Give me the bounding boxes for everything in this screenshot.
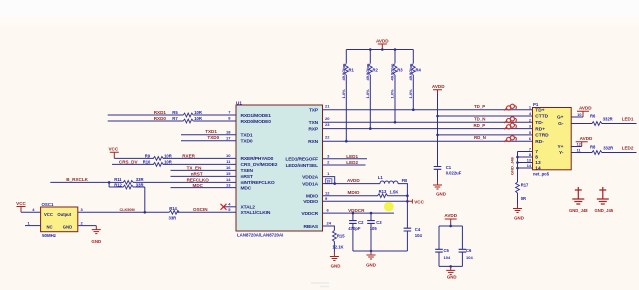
net B_RXCLK wire xyxy=(50,181,109,183)
net TD_N wire TXN to P1 xyxy=(323,121,533,123)
node junction MDIO pull-up xyxy=(406,194,409,197)
svg-text:TXD0: TXD0 xyxy=(241,139,253,145)
svg-text:R12: R12 xyxy=(114,182,122,187)
svg-text:GND: GND xyxy=(91,239,101,244)
svg-text:AVDD: AVDD xyxy=(579,105,592,110)
svg-text:TXEN: TXEN xyxy=(241,168,254,174)
svg-text:nRST: nRST xyxy=(191,171,203,176)
svg-text:6: 6 xyxy=(327,208,330,213)
net CTRD wire (center tap) xyxy=(438,134,533,136)
svg-text:11: 11 xyxy=(226,159,231,164)
svg-text:7: 7 xyxy=(529,148,531,152)
svg-text:33R: 33R xyxy=(169,215,177,220)
ground (RBIAS) xyxy=(330,253,339,261)
OSC1 pin names xyxy=(44,212,72,230)
node junction VDDIO xyxy=(406,200,409,203)
svg-text:AVDD: AVDD xyxy=(347,178,360,183)
twisted pair marker RD_N xyxy=(506,135,515,142)
svg-text:R2: R2 xyxy=(373,68,379,73)
yellow highlight dot xyxy=(384,202,394,212)
svg-text:R5: R5 xyxy=(172,110,178,115)
svg-text:GND_J45: GND_J45 xyxy=(594,208,613,213)
svg-text:24: 24 xyxy=(327,221,332,226)
svg-text:nINT/REFCLKO: nINT/REFCLKO xyxy=(241,180,275,186)
svg-text:TXD1: TXD1 xyxy=(205,129,217,134)
svg-text:TD_P: TD_P xyxy=(474,104,485,109)
svg-text:MDIO: MDIO xyxy=(306,194,319,200)
svg-text:R14: R14 xyxy=(169,206,177,211)
resistor R5 10R xyxy=(183,113,193,117)
svg-text:Output: Output xyxy=(57,212,71,217)
net TX_EN wire to pin 16 xyxy=(171,169,237,171)
svg-text:RXD0: RXD0 xyxy=(154,116,167,121)
svg-text:AVDD: AVDD xyxy=(444,213,457,218)
net OSCIN wire to pin 5 xyxy=(177,211,236,213)
svg-text:GND_J48: GND_J48 xyxy=(569,208,588,213)
svg-text:Y+: Y+ xyxy=(557,144,563,150)
oscillator OSC1 body xyxy=(41,207,78,232)
resistor R13 1.5K xyxy=(378,194,388,198)
chassis ground GND_J45 xyxy=(597,187,609,204)
net LED2 wire from pin 2 xyxy=(323,164,366,166)
ground (C1) xyxy=(433,181,442,189)
svg-text:C2: C2 xyxy=(358,220,364,225)
svg-text:R7: R7 xyxy=(172,116,178,121)
net TXD0 wire to pin 17 xyxy=(181,140,236,142)
svg-text:13: 13 xyxy=(527,159,531,163)
svg-text:CLK50M: CLK50M xyxy=(120,208,135,212)
svg-text:TD-: TD- xyxy=(535,120,543,126)
svg-text:CRS_DV/MODE2: CRS_DV/MODE2 xyxy=(241,162,278,168)
svg-text:15: 15 xyxy=(226,171,231,176)
wire VCC to OSC1 pin 4 xyxy=(21,211,41,213)
P1 left pin names xyxy=(535,107,549,171)
svg-text:49.9Ohm: 49.9Ohm xyxy=(408,63,413,80)
svg-text:5: 5 xyxy=(228,207,231,212)
wire C1 to ground xyxy=(437,169,439,181)
svg-text:RD-: RD- xyxy=(535,139,544,145)
svg-text:3: 3 xyxy=(529,125,531,129)
svg-text:49.9Ohm: 49.9Ohm xyxy=(365,63,370,80)
svg-text:17: 17 xyxy=(226,135,231,140)
svg-text:TXP: TXP xyxy=(309,108,319,114)
svg-text:R4: R4 xyxy=(416,68,422,73)
resistor R9 10R xyxy=(153,157,163,161)
svg-text:332R: 332R xyxy=(603,146,613,151)
svg-text:11: 11 xyxy=(577,149,581,153)
svg-text:3: 3 xyxy=(81,207,84,212)
inductor L1 FB (ferrite bead) xyxy=(380,181,398,184)
P1 left pin numbers xyxy=(527,106,532,168)
svg-text:0R: 0R xyxy=(521,196,526,201)
chassis ground GND_J48 xyxy=(572,187,584,204)
svg-text:104: 104 xyxy=(444,255,451,260)
svg-text:R1: R1 xyxy=(349,68,355,73)
svg-text:RD_N: RD_N xyxy=(474,135,486,140)
svg-text:50MHz: 50MHz xyxy=(42,233,57,238)
svg-text:MDIO: MDIO xyxy=(348,190,360,195)
svg-text:MDC: MDC xyxy=(241,185,252,191)
svg-text:5: 5 xyxy=(529,131,531,135)
svg-text:0.022uF: 0.022uF xyxy=(446,171,462,176)
svg-text:1.0%: 1.0% xyxy=(341,89,346,99)
node junction VDD1A xyxy=(333,182,336,185)
svg-text:R15: R15 xyxy=(337,233,345,238)
net RBIAS wire from pin 24 xyxy=(323,226,335,231)
svg-text:12.1K: 12.1K xyxy=(332,245,343,250)
svg-text:33R: 33R xyxy=(136,182,144,187)
net nRST wire to pin 15 xyxy=(171,175,237,177)
svg-text:GND: GND xyxy=(331,263,341,268)
svg-text:C3: C3 xyxy=(376,220,382,225)
net GND_J48 vertical wire xyxy=(517,152,519,183)
svg-text:9: 9 xyxy=(325,196,328,201)
svg-text:10: 10 xyxy=(577,113,581,117)
svg-text:LAN8720A/LAN8720Ai: LAN8720A/LAN8720Ai xyxy=(237,233,283,238)
svg-text:1.0%: 1.0% xyxy=(390,89,395,99)
wire ground rail C2 C3 C4 xyxy=(353,250,408,252)
no-connect X on XTAL2 pin 4 xyxy=(224,206,237,208)
svg-text:TXN: TXN xyxy=(309,120,319,126)
wire OSC1 pin 1 stub xyxy=(25,225,41,227)
svg-text:P1: P1 xyxy=(533,102,539,107)
svg-text:33R: 33R xyxy=(136,177,144,182)
power VCC port xyxy=(407,199,412,203)
svg-text:R9: R9 xyxy=(145,153,151,158)
svg-text:RXN: RXN xyxy=(308,139,318,145)
ground (VDDCR caps) xyxy=(367,251,376,259)
IC U1 LAN8720A body xyxy=(236,105,323,231)
svg-text:VDD2A: VDD2A xyxy=(302,174,318,180)
svg-text:2: 2 xyxy=(81,220,84,225)
svg-text:332R: 332R xyxy=(603,117,613,122)
svg-text:U1: U1 xyxy=(236,100,242,105)
svg-text:R3: R3 xyxy=(397,68,403,73)
svg-text:NC: NC xyxy=(47,225,53,230)
svg-text:49.9Ohm: 49.9Ohm xyxy=(341,63,346,80)
svg-text:23: 23 xyxy=(325,122,330,127)
wire R12 down to CLK50M xyxy=(144,187,146,212)
ground (oscillator) xyxy=(92,226,101,234)
svg-text:OSCIN: OSCIN xyxy=(193,207,208,212)
svg-text:GND: GND xyxy=(436,191,446,196)
wire Y+ pin 12 xyxy=(571,146,582,148)
svg-text:GND: GND xyxy=(447,275,457,280)
resistor R17 0R xyxy=(516,182,520,193)
svg-text:AVDD: AVDD xyxy=(580,136,593,141)
svg-text:R17: R17 xyxy=(521,183,529,188)
svg-text:RD+: RD+ xyxy=(535,126,545,132)
wire VDD2A pin 1 stub xyxy=(323,177,335,184)
svg-text:49.9Ohm: 49.9Ohm xyxy=(390,63,395,80)
ground (AVDD caps) xyxy=(446,266,455,274)
svg-text:AVDD: AVDD xyxy=(376,39,389,44)
capacitor C3 105 xyxy=(370,213,372,221)
svg-text:8: 8 xyxy=(529,153,531,157)
node junction B_RXCLK xyxy=(108,181,111,184)
svg-text:4: 4 xyxy=(529,112,532,116)
svg-text:TXD0: TXD0 xyxy=(207,135,219,140)
resistor R4 49.9Ohm 1% (termination) xyxy=(412,50,414,64)
svg-text:13: 13 xyxy=(226,182,231,187)
svg-text:C1: C1 xyxy=(446,165,452,170)
svg-text:REFCLKO: REFCLKO xyxy=(187,177,210,182)
svg-text:G+: G+ xyxy=(557,115,564,121)
svg-text:nRST: nRST xyxy=(241,174,253,180)
net RXD1 wire to pin 7 xyxy=(108,114,184,116)
svg-text:VCC: VCC xyxy=(414,199,424,204)
svg-text:1: 1 xyxy=(327,171,330,176)
svg-text:C6: C6 xyxy=(466,248,472,253)
svg-text:RBIAS: RBIAS xyxy=(304,224,319,230)
U1 right pin names xyxy=(285,108,318,230)
P1 right pin names xyxy=(557,115,564,157)
svg-text:TX_EN: TX_EN xyxy=(187,165,202,170)
capacitor C2 470pF xyxy=(352,213,354,221)
svg-text:8: 8 xyxy=(535,155,538,161)
svg-text:RXER: RXER xyxy=(182,153,195,158)
svg-text:LED1: LED1 xyxy=(622,117,634,122)
svg-text:10: 10 xyxy=(226,153,231,158)
net MDIO wire from pin 12 xyxy=(323,195,378,197)
svg-text:G-: G- xyxy=(558,121,564,127)
svg-text:20: 20 xyxy=(325,116,330,121)
twisted pair marker RD_P xyxy=(506,122,515,129)
svg-text:12: 12 xyxy=(577,143,581,147)
wire: AVDD rail over termination resistors xyxy=(346,49,413,51)
svg-text:R11: R11 xyxy=(114,177,122,182)
svg-text:TD+: TD+ xyxy=(535,107,544,113)
net VDDCR wire from pin 6 xyxy=(323,212,395,214)
net AVDD wire VDD1A row xyxy=(323,183,381,185)
svg-text:4: 4 xyxy=(228,201,231,206)
resistor R7 10R xyxy=(183,119,193,123)
resistor R2 49.9Ohm 1% (termination) xyxy=(369,50,371,64)
svg-text:1.5K: 1.5K xyxy=(390,189,399,194)
svg-text:VDDCR: VDDCR xyxy=(348,208,365,213)
net CTTD wire (center tap) xyxy=(438,115,533,117)
wire AVDD decoupling loop bottom xyxy=(439,265,462,267)
svg-text:3: 3 xyxy=(327,153,330,158)
svg-text:TXD1: TXD1 xyxy=(241,133,253,139)
svg-text:22: 22 xyxy=(325,134,330,139)
pin number 19 (boxed) xyxy=(325,179,332,184)
svg-text:RXD0/MODE0: RXD0/MODE0 xyxy=(241,119,272,125)
svg-text:1.0%: 1.0% xyxy=(408,89,413,99)
twisted pair marker TD_P xyxy=(506,104,515,111)
svg-text:LED2: LED2 xyxy=(622,146,634,151)
svg-text:VCC: VCC xyxy=(108,147,118,152)
svg-text:VCC: VCC xyxy=(44,212,53,217)
svg-text:LED1: LED1 xyxy=(346,154,358,159)
power AVDD (termination bank) xyxy=(378,44,387,50)
ground (R17) xyxy=(513,205,522,213)
net VDDIO wire from pin 9 to VCC xyxy=(323,200,408,202)
svg-text:10R: 10R xyxy=(164,153,172,158)
svg-text:VCC: VCC xyxy=(16,201,26,206)
svg-text:7: 7 xyxy=(228,110,231,115)
wire G+ pin 10 xyxy=(571,116,583,118)
svg-text:1.0%: 1.0% xyxy=(365,89,370,99)
svg-text:net_po5: net_po5 xyxy=(533,172,550,177)
wire branch down to R12 xyxy=(108,182,110,187)
svg-text:GND: GND xyxy=(514,215,524,220)
capacitor C4 104 xyxy=(406,201,408,228)
svg-text:OSC1: OSC1 xyxy=(42,202,55,207)
svg-text:MDC: MDC xyxy=(193,183,204,188)
svg-text:1: 1 xyxy=(28,220,31,225)
resistor R15 12.1K xyxy=(333,231,337,242)
svg-text:GND: GND xyxy=(63,225,72,230)
svg-text:C4: C4 xyxy=(415,227,421,232)
svg-text:14: 14 xyxy=(535,166,541,172)
svg-text:8: 8 xyxy=(228,116,231,121)
svg-text:7: 7 xyxy=(535,149,538,155)
svg-text:VDDIO: VDDIO xyxy=(303,199,318,205)
svg-text:VDD1A: VDD1A xyxy=(302,181,318,187)
svg-text:VDDCR: VDDCR xyxy=(301,211,318,217)
net LED2 wire from Y- xyxy=(571,152,592,154)
svg-text:L1: L1 xyxy=(378,175,384,180)
svg-text:LED1/REGOFF: LED1/REGOFF xyxy=(285,157,318,163)
svg-text:14: 14 xyxy=(226,177,231,182)
net MDC wire to pin 13 xyxy=(171,187,237,189)
svg-text:R10: R10 xyxy=(143,159,151,164)
resistor R8 332R xyxy=(592,151,602,155)
node junction CLK50M xyxy=(144,211,147,214)
svg-text:104: 104 xyxy=(415,233,423,238)
svg-text:RXER/PHYAD0: RXER/PHYAD0 xyxy=(241,156,274,162)
svg-text:CTTD: CTTD xyxy=(535,114,548,120)
svg-text:XTAL2: XTAL2 xyxy=(241,205,256,211)
connector P1 body xyxy=(533,108,572,170)
net RD_N wire RXN to P1 xyxy=(323,140,533,142)
net REFCLKO wire to pin 14 xyxy=(109,181,123,183)
wire AVDD decoupling loop top xyxy=(439,225,462,227)
svg-text:B_RXCLK: B_RXCLK xyxy=(66,177,88,182)
svg-text:RXP: RXP xyxy=(308,126,318,132)
svg-text:470pF: 470pF xyxy=(348,226,361,231)
svg-text:LED2: LED2 xyxy=(346,160,358,165)
capacitor C5 104 xyxy=(438,226,440,249)
svg-text:14: 14 xyxy=(527,164,532,168)
net RXER wire to pin 10 xyxy=(114,157,154,159)
svg-text:Y-: Y- xyxy=(559,150,564,156)
svg-text:19: 19 xyxy=(326,180,330,184)
svg-text:10R: 10R xyxy=(194,110,202,115)
resistor R12 33R xyxy=(109,186,123,188)
svg-text:18: 18 xyxy=(226,129,231,134)
svg-text:CRS_DV: CRS_DV xyxy=(119,159,139,164)
net TD_P wire TXP to P1 xyxy=(323,109,533,111)
svg-text:GND: GND xyxy=(366,263,376,268)
net RXD0 wire to pin 8 xyxy=(108,120,184,122)
resistor R6 332R xyxy=(592,122,602,126)
net LED1 wire from G- xyxy=(571,123,592,125)
svg-text:21: 21 xyxy=(325,104,330,109)
svg-text:TD_N: TD_N xyxy=(474,117,485,122)
svg-text:6: 6 xyxy=(529,137,531,141)
capacitor C6 104 xyxy=(461,226,463,249)
net CRS_DV wire to pin 11 xyxy=(112,163,154,165)
capacitor C1 0.022uF xyxy=(434,167,442,170)
net CLK50M wire from OSC1 pin 3 xyxy=(78,211,169,213)
svg-text:10R: 10R xyxy=(164,159,172,164)
svg-text:105: 105 xyxy=(370,226,378,231)
svg-text:13: 13 xyxy=(535,160,541,166)
svg-text:1: 1 xyxy=(529,106,531,110)
U1 left pin names xyxy=(241,113,278,216)
wire OSC1 pin 2 to GND xyxy=(78,225,97,227)
resistor R14 33R xyxy=(169,210,179,214)
svg-text:R8: R8 xyxy=(590,145,596,150)
net LED1 wire from pin 3 xyxy=(323,158,368,160)
svg-text:2: 2 xyxy=(529,118,531,122)
svg-text:LED2/nINTSEL: LED2/nINTSEL xyxy=(286,163,319,169)
resistor R1 49.9Ohm 1% (termination) xyxy=(345,50,347,64)
wire P1 pins 7 8 13 14 tie xyxy=(518,151,533,153)
svg-text:RD_P: RD_P xyxy=(474,123,486,128)
svg-text:104: 104 xyxy=(466,255,473,260)
svg-text:XTAL1/CLKIN: XTAL1/CLKIN xyxy=(241,210,271,216)
svg-text:4: 4 xyxy=(32,207,35,212)
svg-text:16: 16 xyxy=(226,165,231,170)
svg-text:AVDD: AVDD xyxy=(432,84,445,89)
wire: faint artifact mark bottom center xyxy=(311,283,329,287)
wire AVDD down to CTRD and C1 xyxy=(437,94,439,167)
wire L1 to VCC vertical xyxy=(398,184,407,202)
resistor R3 49.9Ohm 1% (termination) xyxy=(394,50,396,64)
net RD_P wire RXP to P1 xyxy=(323,128,533,130)
svg-text:RXD1: RXD1 xyxy=(154,110,167,115)
resistor R10 10R xyxy=(153,163,163,167)
svg-text:R13: R13 xyxy=(379,189,387,194)
svg-text:RXD1/MODE1: RXD1/MODE1 xyxy=(241,113,272,119)
net TXD1 wire to pin 18 xyxy=(181,134,236,136)
svg-text:2: 2 xyxy=(327,160,330,165)
svg-text:C5: C5 xyxy=(444,248,450,253)
svg-text:R6: R6 xyxy=(590,114,596,119)
resistor R11 33R xyxy=(123,181,133,185)
svg-text:12: 12 xyxy=(325,190,330,195)
svg-text:FB: FB xyxy=(402,178,408,183)
svg-text:10R: 10R xyxy=(194,116,202,121)
twisted pair marker TD_N xyxy=(506,116,515,123)
svg-text:CTRD: CTRD xyxy=(535,133,549,139)
svg-text:GND_J48: GND_J48 xyxy=(510,156,515,175)
